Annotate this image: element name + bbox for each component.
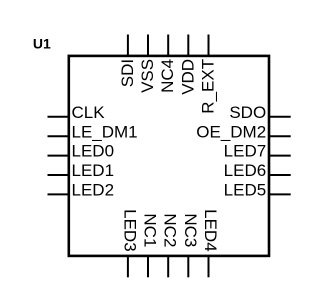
pin LED2 (left 5) wire [48,193,69,195]
svg-text:NC3: NC3 [181,213,200,247]
pin NC2 (bottom 3) wire [167,256,169,277]
svg-text:NC1: NC1 [141,213,160,247]
svg-text:OE_DM2: OE_DM2 [196,122,266,141]
pin OE_DM2 (right 2) wire [269,135,290,137]
pin CLK (left 1) wire [48,116,69,118]
pin VDD (top 4) wire [187,35,189,56]
pin LE_DM1 (left 2) wire [48,135,69,137]
pin SDI (top 1) wire [127,35,129,56]
svg-text:R_EXT: R_EXT [199,59,218,114]
pin R_EXT (top 5) wire [208,35,210,56]
svg-text:LED4: LED4 [201,209,220,252]
svg-text:LED6: LED6 [224,161,267,180]
pin LED3 (bottom 1) wire [127,256,129,277]
pin LED7 (right 3) wire [269,155,290,157]
svg-text:LED3: LED3 [120,209,139,252]
svg-text:VDD: VDD [178,59,197,95]
svg-text:U1: U1 [33,36,51,52]
svg-text:LED5: LED5 [224,181,267,200]
pin LED5 (right 5) wire [269,193,290,195]
svg-text:NC4: NC4 [158,59,177,93]
pin NC4 (top 3) wire [167,35,169,56]
pin LED6 (right 4) wire [269,174,290,176]
pin LED4 (bottom 5) wire [208,256,210,277]
svg-text:LED0: LED0 [72,142,115,161]
svg-text:VSS: VSS [138,59,157,93]
pin LED1 (left 4) wire [48,174,69,176]
pin LED0 (left 3) wire [48,155,69,157]
pin NC1 (bottom 2) wire [147,256,149,277]
pin VSS (top 2) wire [147,35,149,56]
svg-text:NC2: NC2 [161,213,180,247]
pin NC3 (bottom 4) wire [187,256,189,277]
svg-text:CLK: CLK [72,103,106,122]
svg-text:LED2: LED2 [72,181,115,200]
pin SDO (right 1) wire [269,116,290,118]
svg-text:LED7: LED7 [224,142,267,161]
svg-text:LE_DM1: LE_DM1 [72,122,138,141]
IC body U1 [69,56,269,256]
svg-text:LED1: LED1 [72,161,115,180]
svg-text:SDO: SDO [229,103,266,122]
svg-text:SDI: SDI [118,59,137,87]
